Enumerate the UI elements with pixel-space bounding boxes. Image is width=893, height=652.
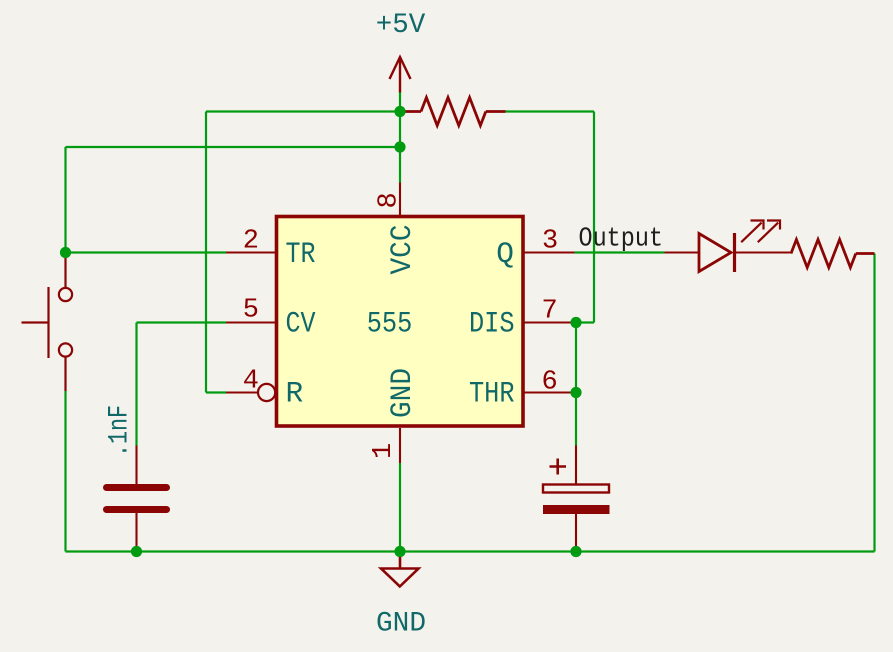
svg-text:5: 5 [243,296,259,326]
switch SW1 (push button) [22,253,73,392]
svg-text:TR: TR [286,237,316,271]
wire: below switch down to ground rail [64,391,66,552]
wire: resistor R1 to right vertical [506,110,595,112]
LED D1 [665,221,792,273]
svg-text:2: 2 [243,227,259,257]
wire: stub into pin 7 junction [576,321,594,323]
svg-text:.1nF: .1nF [105,405,136,457]
svg-text:8: 8 [375,192,405,208]
junction at C2 ground node [570,546,581,557]
wire: left vertical x206 down to pin 4 [205,112,207,393]
pin 4 R (with inversion bubble) [226,391,258,393]
svg-text:DIS: DIS [469,307,515,341]
IC U1 555 body [277,217,524,427]
pin 2 TR [226,251,275,253]
capacitor C2 polarized [543,446,610,552]
wire: bottom ground rail [66,550,875,552]
svg-text:Q: Q [496,237,514,271]
wire: second horizontal from left rail to VCC junction [66,146,401,148]
svg-text:+5V: +5V [376,10,426,41]
svg-text:GND: GND [376,609,426,640]
wire: right vertical from R2 down to ground rail [873,254,875,552]
wire: pin 4 stub [206,391,226,393]
wire: far-left vertical down to switch [64,147,66,253]
svg-text:555: 555 [367,307,413,341]
svg-text:1: 1 [369,443,399,459]
junction at pin 6 node [570,387,581,398]
wire: C1 top vertical from pin5 wire [135,323,137,446]
wire: pin 2 horizontal [66,251,227,253]
wire: vertical pin7-pin6-C2 [575,323,577,446]
wire: pin 1 down to ground rail [399,463,401,552]
pin 8 VCC vertical [399,183,401,216]
junction at VCC/R1 node [394,106,405,117]
resistor R2 [791,240,875,268]
svg-text:THR: THR [469,377,515,411]
svg-text:6: 6 [542,368,558,398]
junction at second rail node [394,141,405,152]
wire: top horizontal from node at x206 to VCC junction [206,110,400,112]
LED emission arrows [741,221,780,243]
svg-text:R: R [286,377,304,411]
junction at GND symbol node [394,546,405,557]
svg-text:VCC: VCC [385,225,419,275]
pin 5 CV [226,321,275,323]
pin 3 Q [524,251,575,253]
svg-text:CV: CV [286,307,316,341]
capacitor C1 .1nF [107,446,167,552]
svg-text:Output: Output [579,225,664,255]
svg-text:4: 4 [243,367,259,397]
junction at C1 ground node [131,546,142,557]
wire: vertical from R1 down to pin 7 [593,112,595,323]
wire: pin 3 output wire to LED [575,251,665,253]
power symbol +5V [390,57,411,93]
svg-text:GND: GND [385,368,419,418]
wire: pin 5 horizontal [137,321,227,323]
junction at pin2/switch node [60,247,71,258]
resistor R1 [404,98,506,126]
pin 6 THR [524,391,575,393]
pin 1 GND vertical [399,428,401,463]
pin 7 DIS [524,321,575,323]
ground symbol [381,552,419,587]
svg-text:3: 3 [542,227,558,257]
wire: VCC vertical between power symbol and pin 8 [399,93,401,183]
junction at pin 7 node [570,317,581,328]
svg-text:7: 7 [542,297,558,327]
